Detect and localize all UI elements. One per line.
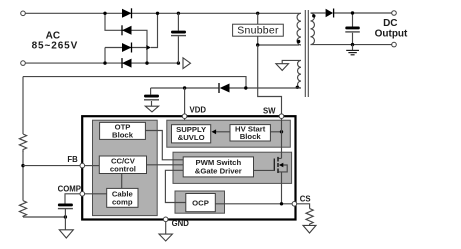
wire GND stub bbox=[165, 222, 167, 234]
dc output terminal plus bbox=[392, 11, 397, 16]
ground comp bbox=[59, 230, 73, 238]
dc output terminal minus bbox=[392, 42, 397, 47]
wire supply-hv arrow bbox=[212, 129, 231, 134]
wire OTP to PWM bbox=[145, 131, 183, 160]
pin CS bbox=[292, 202, 297, 207]
pin GND bbox=[163, 217, 168, 222]
transistor Q1 mosfet bbox=[274, 157, 287, 173]
panel pwm bbox=[173, 152, 292, 183]
wire secondary top bbox=[311, 12, 392, 14]
capacitor bulk bbox=[171, 13, 186, 63]
wire FB bbox=[23, 165, 80, 167]
svg-text:OCP: OCP bbox=[192, 199, 209, 208]
node primary phase dot bbox=[297, 40, 300, 43]
svg-text:FB: FB bbox=[67, 155, 78, 164]
svg-text:COMP: COMP bbox=[58, 185, 81, 194]
block PWM switch gate driver bbox=[183, 157, 253, 177]
ac terminal top bbox=[21, 11, 26, 16]
block CC/CV control bbox=[99, 156, 146, 174]
node output junctions bbox=[351, 11, 354, 14]
node aux phase dot bbox=[296, 86, 299, 89]
wire top rail bbox=[26, 12, 302, 14]
wire CCCV to PWM bbox=[147, 164, 184, 166]
resistor R2 bbox=[19, 201, 26, 217]
wire VDD pin bbox=[184, 88, 186, 125]
arrow aux down bbox=[276, 64, 289, 71]
diode output rectifier bbox=[326, 9, 334, 18]
block OCP bbox=[186, 194, 216, 212]
ground output earth bbox=[346, 45, 359, 55]
wire COMP inside bbox=[84, 193, 107, 195]
diode D4 bbox=[122, 58, 132, 68]
wire startup line bbox=[23, 77, 246, 88]
wire bridge row2 bbox=[105, 13, 147, 63]
svg-text:control: control bbox=[110, 165, 136, 174]
ground VDD cap bbox=[145, 106, 158, 112]
diode D1 bbox=[122, 8, 132, 18]
wire OCP to CS bbox=[215, 203, 292, 205]
wire cable comp to cccv bbox=[121, 174, 123, 189]
snubber box bbox=[233, 13, 284, 45]
wire left rail upper bbox=[22, 77, 24, 134]
wire FB inside bbox=[84, 165, 99, 167]
panel ocp bbox=[175, 191, 225, 213]
wire CS external bbox=[297, 204, 310, 209]
svg-text:Block: Block bbox=[112, 130, 134, 139]
node secondary phase dot bbox=[312, 14, 315, 17]
node bottom rail junctions bbox=[103, 61, 106, 64]
wire bottom ac rail bbox=[26, 62, 179, 64]
capacitor output bbox=[345, 13, 360, 45]
node CS junction bbox=[280, 202, 283, 205]
svg-text:&Gate Driver: &Gate Driver bbox=[195, 167, 242, 176]
node FB junction bbox=[21, 164, 24, 167]
wire aux top bbox=[282, 60, 301, 63]
wire bridge row3 bbox=[105, 13, 158, 63]
svg-text:Block: Block bbox=[240, 132, 262, 141]
ground IC gnd bbox=[159, 234, 172, 241]
block cable comp bbox=[107, 188, 138, 207]
node comp cap bottom bbox=[64, 215, 67, 218]
svg-text:CS: CS bbox=[300, 194, 311, 203]
resistor R3 sense bbox=[306, 209, 313, 226]
wire PWM to OCP bbox=[165, 170, 185, 202]
svg-text:SW: SW bbox=[263, 107, 276, 116]
svg-text:VDD: VDD bbox=[190, 105, 207, 114]
panel supply/hv bbox=[167, 120, 290, 147]
pin SW bbox=[279, 114, 284, 119]
node VDD junctions bbox=[183, 86, 186, 89]
svg-text:&UVLO: &UVLO bbox=[178, 133, 205, 142]
svg-text:DC: DC bbox=[383, 18, 397, 29]
svg-text:Snubber: Snubber bbox=[237, 25, 279, 37]
svg-text:comp: comp bbox=[112, 198, 133, 207]
wire HV to SW net bbox=[270, 131, 281, 133]
wire mosfet source to CS bbox=[281, 172, 283, 204]
junction arrow row3 bbox=[146, 45, 151, 50]
transformer secondary winding bbox=[311, 13, 315, 45]
diode D2 bbox=[122, 25, 132, 35]
wire gate bbox=[254, 169, 275, 171]
ground CS bbox=[303, 225, 316, 233]
svg-text:Output: Output bbox=[375, 28, 408, 39]
diode D3 bbox=[122, 43, 132, 53]
transformer core bbox=[304, 10, 306, 97]
wire COMP bbox=[65, 194, 80, 204]
pin COMP bbox=[80, 192, 85, 197]
block SUPPLY UVLO bbox=[172, 125, 211, 143]
capacitor COMP bbox=[58, 204, 73, 230]
wire secondary bottom bbox=[311, 44, 392, 46]
wire R2 to comp cap bbox=[23, 216, 65, 218]
node primary bottom bbox=[256, 43, 259, 46]
pin FB bbox=[80, 163, 85, 168]
wire SW route bbox=[258, 45, 282, 114]
svg-text:GND: GND bbox=[172, 219, 190, 228]
diode VDD rectifier bbox=[219, 83, 230, 93]
wire VDD line bbox=[151, 87, 299, 89]
svg-text:85~265V: 85~265V bbox=[32, 41, 79, 52]
resistor R1 bbox=[19, 134, 26, 152]
arrow bottom rail end bbox=[183, 58, 191, 69]
pin VDD bbox=[182, 114, 187, 119]
wire SW vertical to mosfet bbox=[281, 119, 283, 159]
ac terminal bottom bbox=[21, 61, 26, 66]
node top rail junctions bbox=[103, 12, 106, 15]
capacitor VDD bbox=[144, 88, 159, 106]
block OTP bbox=[100, 122, 146, 139]
wire left rail mid bbox=[22, 151, 24, 201]
transformer aux winding bbox=[298, 60, 301, 88]
wire primary bottom bbox=[258, 44, 299, 46]
panel left analog bbox=[93, 120, 158, 215]
block HV start bbox=[230, 125, 270, 141]
transformer primary winding bbox=[297, 13, 301, 45]
svg-text:PWM Switch: PWM Switch bbox=[195, 158, 241, 167]
node SW net dot bbox=[280, 130, 283, 133]
IC outer box U1 bbox=[82, 116, 295, 219]
